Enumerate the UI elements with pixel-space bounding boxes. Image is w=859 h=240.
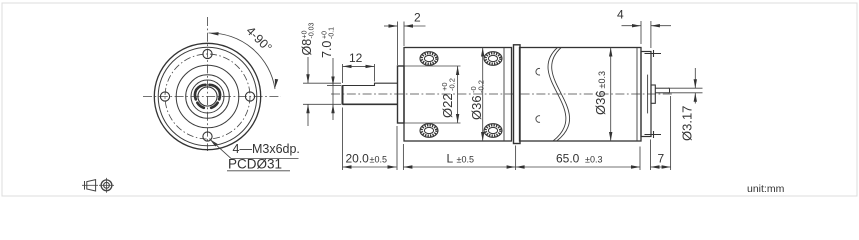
terminal top bbox=[645, 50, 662, 57]
dim Ø36 -0/-0.2 gearbox bbox=[469, 48, 486, 142]
motor can bbox=[520, 48, 642, 142]
boss circle bbox=[186, 75, 230, 119]
svg-text:Ø36: Ø36 bbox=[593, 90, 608, 115]
svg-text:Ø3.17: Ø3.17 bbox=[680, 106, 695, 141]
svg-text:-0.2: -0.2 bbox=[448, 78, 457, 91]
svg-text:Ø36: Ø36 bbox=[469, 95, 484, 120]
dim 7 bbox=[651, 96, 671, 170]
dim Ø3.17 bbox=[668, 68, 703, 141]
svg-text:2: 2 bbox=[414, 11, 421, 25]
svg-text:12: 12 bbox=[349, 51, 363, 65]
dim 12 bbox=[343, 51, 375, 83]
projection symbol circle bbox=[99, 178, 114, 193]
side view centerline bbox=[331, 93, 674, 95]
svg-text:±0.5: ±0.5 bbox=[457, 155, 474, 165]
svg-text:L: L bbox=[447, 152, 454, 166]
svg-text:20.0: 20.0 bbox=[346, 152, 370, 166]
dim 7.0 +0/-0.1 bbox=[320, 27, 341, 120]
front boss Ø22 bbox=[398, 66, 405, 123]
dim Ø22 +0/-0.2 bbox=[404, 66, 461, 123]
svg-text:PCDØ31: PCDØ31 bbox=[228, 156, 282, 171]
retaining clip arcs bbox=[195, 85, 220, 108]
svg-text:65.0: 65.0 bbox=[556, 152, 580, 166]
svg-text:+0: +0 bbox=[302, 30, 309, 38]
label PCD31 bbox=[227, 156, 290, 171]
svg-text:unit:mm: unit:mm bbox=[747, 183, 785, 195]
joint flange ring bbox=[514, 45, 521, 144]
svg-text:-0.1: -0.1 bbox=[329, 27, 336, 39]
front view outer flange circle bbox=[154, 43, 260, 149]
gearbox case bbox=[404, 48, 512, 142]
end cap bbox=[641, 52, 651, 137]
svg-text:7: 7 bbox=[658, 152, 665, 166]
svg-text:±0.3: ±0.3 bbox=[597, 71, 607, 88]
arc dimension 4-90 bbox=[209, 24, 279, 89]
screw head top-right bbox=[484, 52, 502, 66]
leader 4-M3x6dp bbox=[209, 138, 300, 159]
svg-text:±0.5: ±0.5 bbox=[370, 155, 387, 165]
svg-text:4—M3x6dp.: 4—M3x6dp. bbox=[233, 142, 300, 156]
motor can rim line bbox=[636, 48, 638, 141]
front view horizontal centerline bbox=[143, 96, 281, 98]
bolt hole bottom bbox=[203, 132, 212, 141]
svg-text:Ø22: Ø22 bbox=[440, 93, 455, 118]
dim Ø8 +0/-0.03 bbox=[300, 22, 341, 126]
svg-text:4: 4 bbox=[617, 8, 624, 22]
dim 20.0 ±0.5 bbox=[343, 108, 398, 171]
screw head top-left bbox=[420, 52, 438, 66]
svg-text:7.0: 7.0 bbox=[320, 41, 334, 58]
svg-text:-0.03: -0.03 bbox=[309, 22, 316, 38]
svg-text:Ø8: Ø8 bbox=[300, 39, 314, 56]
break S-curve bbox=[548, 48, 570, 142]
svg-text:±0.3: ±0.3 bbox=[585, 155, 602, 165]
bolt hole right bbox=[245, 92, 254, 101]
svg-text:+0: +0 bbox=[322, 31, 329, 39]
motor vent mark bottom bbox=[536, 116, 540, 123]
front ring circle bbox=[176, 65, 239, 128]
rear bushing bbox=[651, 85, 655, 103]
front view case circle bbox=[158, 47, 257, 146]
bolt circle PCD31 dash-dot bbox=[165, 54, 250, 139]
end cap boss ring bbox=[647, 75, 649, 114]
dim 65.0 ±0.3 bbox=[516, 147, 640, 171]
bolt hole top bbox=[203, 49, 212, 58]
output shaft side view bbox=[343, 83, 398, 105]
dim 2 bbox=[384, 11, 426, 66]
front view vertical centerline bbox=[207, 17, 209, 151]
dim L ±0.5 bbox=[403, 144, 515, 170]
motor vent mark top bbox=[536, 68, 540, 75]
projection symbol cone bbox=[82, 180, 98, 191]
terminal bottom bbox=[645, 131, 662, 138]
svg-text:4-90°: 4-90° bbox=[243, 24, 274, 55]
screw head bottom-left bbox=[420, 124, 438, 138]
dim Ø36 ±0.3 motor bbox=[593, 48, 612, 142]
gearbox rear edge line bbox=[503, 48, 505, 142]
bolt hole left bbox=[160, 92, 169, 101]
rear shaft bbox=[655, 88, 669, 93]
bearing circle bbox=[191, 80, 224, 113]
dim 4 bbox=[617, 8, 671, 49]
svg-text:-0.2: -0.2 bbox=[477, 80, 486, 93]
shaft circle bbox=[198, 87, 217, 106]
screw head bottom-right bbox=[484, 124, 502, 138]
